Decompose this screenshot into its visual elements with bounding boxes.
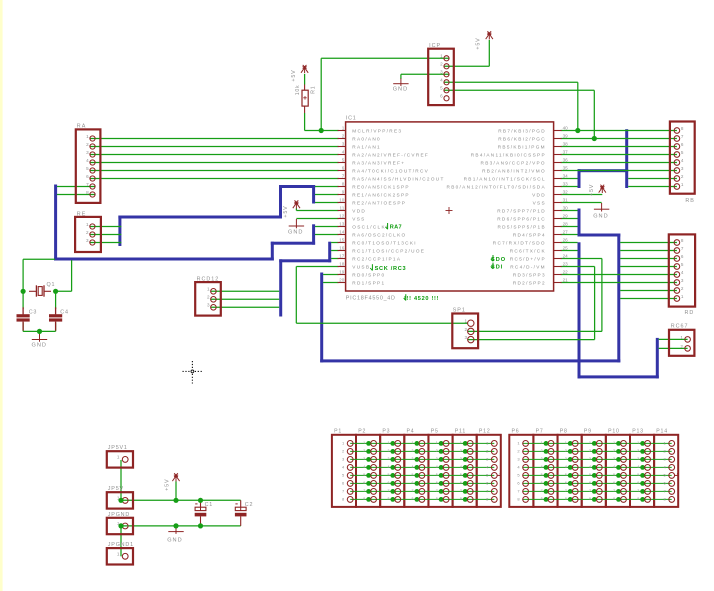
svg-text:4: 4 [460,465,462,469]
svg-text:8: 8 [412,497,414,501]
svg-text:P13: P13 [632,428,644,434]
svg-text:3: 3 [681,166,684,171]
svg-text:1: 1 [681,294,684,299]
svg-text:RB0/AN12/INT0/FLT0/SDI/SDA: RB0/AN12/INT0/FLT0/SDI/SDA [447,184,546,189]
svg-text:21: 21 [563,278,569,283]
svg-text:3: 3 [613,457,615,461]
svg-text:1: 1 [387,441,389,445]
svg-text:RA2/AN2/VREF-/CVREF: RA2/AN2/VREF-/CVREF [352,152,429,157]
svg-text:P11: P11 [455,428,466,434]
svg-text:2: 2 [541,449,543,453]
svg-text:SCK /RC3: SCK /RC3 [375,266,407,272]
svg-text:RC1/T1OSI/CCP2/UOE: RC1/T1OSI/CCP2/UOE [352,248,425,253]
svg-text:4: 4 [565,465,567,469]
svg-text:RB5/KBI1/PGM: RB5/KBI1/PGM [498,144,546,149]
svg-text:3: 3 [440,70,443,75]
svg-text:VDD: VDD [532,192,546,197]
svg-text:VDD: VDD [352,208,366,213]
svg-text:4: 4 [86,158,89,163]
svg-text:39: 39 [563,134,569,139]
svg-text:4: 4 [681,270,684,275]
svg-text:27: 27 [563,230,569,235]
svg-text:25: 25 [563,246,569,251]
svg-text:1: 1 [86,222,89,227]
svg-text:33: 33 [563,182,569,187]
svg-text:GND: GND [32,343,47,349]
svg-text:RD4/SPP4: RD4/SPP4 [513,232,546,237]
svg-text:2: 2 [363,449,365,453]
svg-text:4: 4 [387,465,389,469]
svg-text:6: 6 [440,94,443,99]
svg-text:RE0/AN5/CK1SPP: RE0/AN5/CK1SPP [352,184,410,189]
svg-text:RC6/TX/CK: RC6/TX/CK [510,248,546,253]
svg-text:6: 6 [565,481,567,485]
svg-text:10: 10 [339,198,345,203]
svg-text:1: 1 [117,552,120,557]
svg-text:3: 3 [436,457,438,461]
svg-text:R1: R1 [311,86,317,94]
svg-text:2: 2 [464,327,467,332]
svg-text:1: 1 [117,455,120,460]
svg-text:1: 1 [86,134,89,139]
svg-text:4: 4 [363,465,365,469]
svg-text:7: 7 [86,182,89,187]
svg-text:3: 3 [412,457,414,461]
svg-text:P10: P10 [608,428,620,434]
svg-text:8: 8 [436,497,438,501]
svg-text:17: 17 [339,254,345,259]
svg-text:4: 4 [412,465,414,469]
svg-text:7: 7 [387,489,389,493]
svg-text:RD6/SPP6/P1C: RD6/SPP6/P1C [497,216,546,221]
svg-text:3: 3 [207,303,210,308]
svg-text:GND: GND [167,537,182,543]
svg-text:SDI: SDI [491,265,503,271]
svg-text:2: 2 [86,230,89,235]
svg-text:22: 22 [563,270,569,275]
svg-text:RD0/SPP0: RD0/SPP0 [352,272,385,277]
svg-text:+5V: +5V [165,479,171,491]
svg-text:RB: RB [685,198,695,204]
svg-text:RA4/T0CKI/C1OUT/RCV: RA4/T0CKI/C1OUT/RCV [352,168,429,173]
svg-text:6: 6 [436,481,438,485]
svg-text:28: 28 [563,222,569,227]
svg-text:31: 31 [563,198,569,203]
svg-text:8: 8 [589,497,591,501]
svg-text:9: 9 [342,190,345,195]
svg-text:2: 2 [637,449,639,453]
svg-text:RC5/D+/VP: RC5/D+/VP [510,256,546,261]
svg-text:VSS: VSS [533,200,546,205]
svg-text:RA0/AN0: RA0/AN0 [352,136,381,141]
svg-text:P12: P12 [479,428,491,434]
svg-text:Q1: Q1 [47,282,56,288]
svg-text:30: 30 [563,206,569,211]
svg-text:26: 26 [563,238,569,243]
svg-text:2: 2 [387,449,389,453]
svg-text:MCLR/VPP/RE3: MCLR/VPP/RE3 [352,128,402,133]
svg-text:6: 6 [86,174,89,179]
svg-text:!!! 4520 !!!: !!! 4520 !!! [404,296,439,302]
svg-text:+5V: +5V [291,69,297,81]
svg-text:8: 8 [460,497,462,501]
svg-text:RE2/AN7/OESPP: RE2/AN7/OESPP [352,200,406,205]
svg-text:+5V: +5V [589,184,595,196]
svg-text:8: 8 [387,497,389,501]
svg-text:P5: P5 [431,428,439,434]
svg-text:1: 1 [363,441,365,445]
svg-text:7: 7 [412,489,414,493]
svg-text:3: 3 [464,335,467,340]
svg-text:12: 12 [339,214,345,219]
svg-text:6: 6 [541,481,543,485]
svg-text:7: 7 [460,489,462,493]
svg-text:7: 7 [565,489,567,493]
svg-text:8: 8 [541,497,543,501]
svg-text:3: 3 [387,457,389,461]
svg-text:RA7: RA7 [390,225,402,231]
svg-text:OSC1/CLKI: OSC1/CLKI [352,224,388,229]
svg-text:7: 7 [637,489,639,493]
svg-text:RC7/RX/DT/SDO: RC7/RX/DT/SDO [493,240,546,245]
svg-text:2: 2 [680,344,683,349]
svg-text:IC1: IC1 [346,116,357,122]
svg-text:19: 19 [339,270,345,275]
svg-text:4: 4 [681,158,684,163]
svg-text:RB7/KBI3/PGD: RB7/KBI3/PGD [498,128,546,133]
svg-text:RB2/AN8/INT2/VMO: RB2/AN8/INT2/VMO [482,168,546,173]
svg-text:7: 7 [436,489,438,493]
svg-text:C1: C1 [205,502,214,508]
svg-text:7: 7 [363,489,365,493]
svg-text:5: 5 [387,473,389,477]
svg-text:6: 6 [342,166,345,171]
svg-text:GND: GND [393,86,408,92]
svg-text:14: 14 [339,230,345,235]
svg-text:RA6/OSC2/CLKO: RA6/OSC2/CLKO [352,232,406,237]
svg-text:P8: P8 [560,428,568,434]
svg-text:37: 37 [563,150,569,155]
svg-text:18: 18 [339,262,345,267]
svg-text:7: 7 [342,174,345,179]
svg-text:29: 29 [563,214,569,219]
svg-text:8: 8 [565,497,567,501]
svg-text:PIC18F4550_4D: PIC18F4550_4D [346,296,396,302]
svg-text:P4: P4 [407,428,415,434]
svg-text:5: 5 [86,166,89,171]
svg-text:6: 6 [681,142,684,147]
svg-text:16: 16 [339,246,345,251]
svg-text:VSS: VSS [352,216,365,221]
svg-text:1: 1 [412,441,414,445]
svg-text:6: 6 [412,481,414,485]
svg-text:RD: RD [685,310,695,316]
svg-text:7: 7 [681,134,684,139]
svg-text:1: 1 [613,441,615,445]
svg-text:7: 7 [541,489,543,493]
svg-text:3: 3 [86,238,89,243]
svg-text:C4: C4 [60,309,69,315]
svg-text:RC0/T1OSO/T13CKI: RC0/T1OSO/T13CKI [352,240,417,245]
svg-text:2: 2 [460,449,462,453]
svg-text:P2: P2 [358,428,366,434]
svg-text:1: 1 [440,54,443,59]
svg-text:1: 1 [680,335,683,340]
svg-text:1: 1 [207,287,210,292]
svg-text:1: 1 [637,441,639,445]
svg-text:P7: P7 [536,428,544,434]
svg-text:P3: P3 [382,428,390,434]
svg-text:5: 5 [440,86,443,91]
svg-text:20: 20 [339,278,345,283]
svg-text:5: 5 [541,473,543,477]
svg-text:GND: GND [593,213,608,219]
svg-text:6: 6 [387,481,389,485]
svg-text:RD3/SPP3: RD3/SPP3 [513,272,546,277]
svg-text:1: 1 [541,441,543,445]
svg-text:15: 15 [339,238,345,243]
svg-text:5: 5 [460,473,462,477]
svg-text:6: 6 [637,481,639,485]
svg-text:13: 13 [339,222,345,227]
svg-text:1: 1 [342,126,345,131]
svg-text:RA3/AN3/VREF+: RA3/AN3/VREF+ [352,160,405,165]
svg-text:4: 4 [613,465,615,469]
svg-text:GND: GND [288,230,303,236]
svg-text:P6: P6 [512,428,520,434]
svg-text:6: 6 [681,254,684,259]
svg-text:1: 1 [565,441,567,445]
svg-text:4: 4 [637,465,639,469]
svg-text:1: 1 [464,319,467,324]
svg-text:RB4/AN11/KBI0/CSSPP: RB4/AN11/KBI0/CSSPP [471,152,546,157]
svg-text:10k: 10k [295,85,301,96]
svg-text:8: 8 [613,497,615,501]
svg-text:2: 2 [440,62,443,67]
svg-text:5: 5 [681,150,684,155]
svg-text:23: 23 [563,262,569,267]
svg-text:C3: C3 [29,309,38,315]
svg-text:7: 7 [613,489,615,493]
svg-text:2: 2 [436,449,438,453]
svg-text:2: 2 [681,174,684,179]
svg-text:VUSB: VUSB [352,264,370,269]
svg-text:5: 5 [613,473,615,477]
svg-text:6: 6 [589,481,591,485]
svg-text:3: 3 [86,150,89,155]
svg-text:7: 7 [589,489,591,493]
svg-text:RB6/KBI2/PGC: RB6/KBI2/PGC [498,136,546,141]
svg-text:2: 2 [86,142,89,147]
svg-text:38: 38 [563,142,569,147]
svg-text:5: 5 [436,473,438,477]
svg-text:2: 2 [565,449,567,453]
svg-text:RD5/SPP5/P1B: RD5/SPP5/P1B [497,224,545,229]
svg-text:6: 6 [363,481,365,485]
svg-text:1: 1 [460,441,462,445]
svg-text:8: 8 [681,126,684,131]
svg-text:P1: P1 [334,428,342,434]
svg-text:RC2/CCP1/P1A: RC2/CCP1/P1A [352,256,401,261]
svg-text:RE1/AN6/CK2SPP: RE1/AN6/CK2SPP [352,192,410,197]
svg-text:RB1/AN10/INT1/SCK/SCL: RB1/AN10/INT1/SCK/SCL [464,176,546,181]
svg-text:3: 3 [637,457,639,461]
svg-text:35: 35 [563,166,569,171]
svg-text:34: 34 [563,174,569,179]
svg-text:1: 1 [589,441,591,445]
svg-text:24: 24 [563,254,569,259]
svg-text:5: 5 [637,473,639,477]
svg-text:P14: P14 [656,428,668,434]
svg-text:2: 2 [613,449,615,453]
svg-text:36: 36 [563,158,569,163]
svg-text:32: 32 [563,190,569,195]
svg-text:5: 5 [412,473,414,477]
svg-text:RC4/D-/VM: RC4/D-/VM [510,264,546,269]
svg-text:3: 3 [363,457,365,461]
svg-text:C2: C2 [245,502,254,508]
svg-text:2: 2 [342,134,345,139]
svg-text:3: 3 [460,457,462,461]
svg-text:RB3/AN9/CCP2/VPO: RB3/AN9/CCP2/VPO [481,160,546,165]
svg-text:P9: P9 [584,428,592,434]
svg-text:5: 5 [589,473,591,477]
svg-text:2: 2 [681,286,684,291]
svg-text:+5V: +5V [283,205,289,217]
svg-text:RA1/AN1: RA1/AN1 [352,144,381,149]
svg-text:4: 4 [436,465,438,469]
svg-text:8: 8 [681,238,684,243]
svg-text:3: 3 [589,457,591,461]
svg-text:2: 2 [589,449,591,453]
svg-text:6: 6 [460,481,462,485]
svg-text:3: 3 [541,457,543,461]
svg-text:8: 8 [86,190,89,195]
svg-text:11: 11 [340,206,345,211]
svg-text:SDO: SDO [491,257,506,263]
svg-text:+5V: +5V [476,37,482,49]
svg-text:2: 2 [412,449,414,453]
svg-text:5: 5 [565,473,567,477]
svg-text:3: 3 [342,142,345,147]
svg-text:RA5/AN4/SS/HLVDIN/C2OUT: RA5/AN4/SS/HLVDIN/C2OUT [352,176,444,181]
svg-text:6: 6 [613,481,615,485]
svg-text:40: 40 [563,126,569,131]
svg-text:4: 4 [342,150,345,155]
svg-text:5: 5 [342,158,345,163]
svg-text:7: 7 [681,246,684,251]
svg-text:8: 8 [342,182,345,187]
svg-text:4: 4 [440,78,443,83]
svg-text:3: 3 [565,457,567,461]
svg-text:RD2/SPP2: RD2/SPP2 [513,280,546,285]
svg-text:5: 5 [681,262,684,267]
svg-text:5: 5 [363,473,365,477]
svg-text:8: 8 [637,497,639,501]
svg-text:2: 2 [207,295,210,300]
svg-text:RD1/SPP1: RD1/SPP1 [352,280,385,285]
svg-text:3: 3 [681,278,684,283]
svg-text:1: 1 [681,182,684,187]
svg-text:4: 4 [589,465,591,469]
svg-text:8: 8 [363,497,365,501]
svg-text:4: 4 [541,465,543,469]
svg-text:RD7/SPP7/P1D: RD7/SPP7/P1D [497,208,546,213]
svg-text:1: 1 [436,441,438,445]
